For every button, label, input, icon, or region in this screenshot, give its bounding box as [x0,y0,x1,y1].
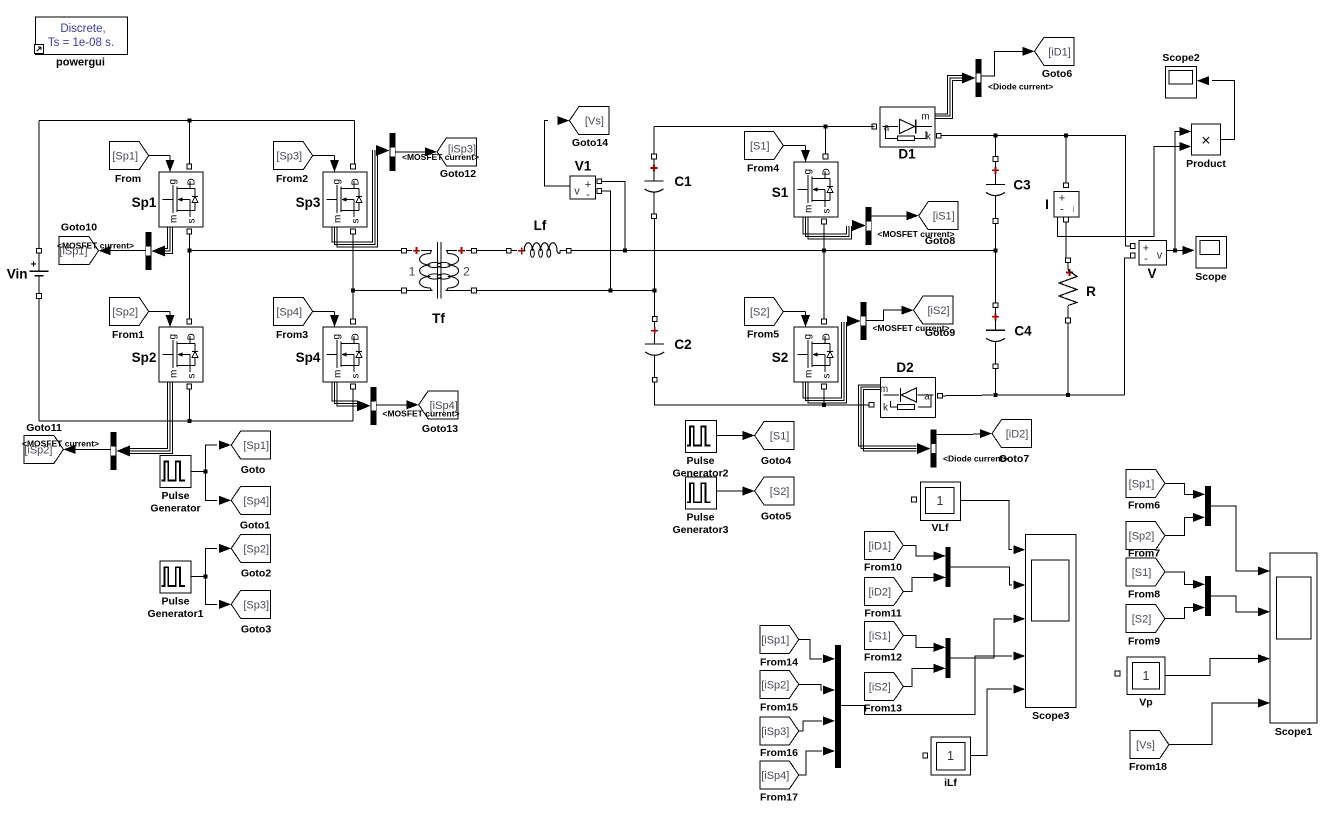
goto tag Goto11 [iSp2] [24,422,64,463]
wire From12->mux2 [904,636,935,648]
wire From15->bigmux [799,684,822,690]
demux Goto7 [931,430,937,468]
arrow into Goto8 [907,211,919,220]
wire PG2 out [717,435,743,437]
arrow bigmux in4 [823,747,835,756]
wire top bus [654,125,872,127]
svg-text:Goto5: Goto5 [761,510,791,522]
wire From->Sp1 gate [149,155,170,157]
arrow Product in1 [1179,127,1191,136]
svg-text:s: s [187,219,198,224]
from tag From10 [iD1] [864,531,903,573]
wire top rail left [39,120,355,122]
from tag From6 [Sp1] [1126,469,1165,511]
svg-text:g: g [803,169,814,175]
from tag From12 [iS1] [864,622,903,664]
svg-text:Sp2: Sp2 [132,350,157,365]
svg-text:[Sp3]: [Sp3] [276,151,302,163]
fat arrow into demux13 [357,400,371,411]
svg-text:Scope3: Scope3 [1032,710,1070,722]
arrow into Goto2 [219,544,231,553]
wire I top lead [1065,136,1067,183]
svg-text:D1: D1 [898,147,916,162]
wire V1+ to rail [602,181,625,248]
svg-text:[Sp4]: [Sp4] [243,495,269,507]
svg-text:Pulse: Pulse [161,490,189,502]
diode D1 [872,107,941,161]
svg-text:From12: From12 [864,652,902,664]
capacitor C1 [652,154,657,159]
arrow muxB in2 [1193,603,1205,612]
svg-text:From8: From8 [1128,589,1160,601]
wire demux11->Goto11 [76,449,111,451]
svg-text:[iSp4]: [iSp4] [761,770,789,782]
capacitor C3 [993,157,998,162]
bundle S2 m [803,322,842,398]
wire demux9->Goto9 [866,310,902,320]
wire PG1 out [191,548,217,604]
svg-text:D: D [822,333,833,340]
scope Scope [1195,237,1227,283]
svg-text:From6: From6 [1128,500,1160,512]
svg-text:Goto4: Goto4 [761,455,791,467]
voltage measurement V [1130,240,1166,281]
svg-text:D: D [351,333,362,340]
node top-rail/Sp1 junction [187,119,191,123]
wire rail2 secondary [476,290,654,292]
wire V out [1166,249,1182,251]
arrow into Goto4 [743,431,755,440]
node S-leg junction [822,249,826,253]
svg-text:D: D [822,168,833,175]
svg-text:V: V [1147,266,1156,281]
wire bigmux->Scope3 [841,656,1012,714]
wire Sp3s-Sp4d leg [352,234,354,319]
bundle Sp4 m [332,382,357,401]
fat arrow into demux12 [376,145,390,156]
wire From3->Sp4 gate [313,310,335,312]
from tag From18 [Vs] [1129,731,1169,773]
arrow into Scope [1183,246,1195,255]
wire From18->Scope1 [1170,703,1259,745]
bundle D1 m [935,76,962,114]
constant block Vp [1115,657,1165,709]
wire bottom rail left [39,420,353,422]
wire From8->muxB [1166,572,1194,585]
demux Goto12 [390,133,396,171]
svg-text:s: s [351,374,362,379]
svg-text:[Sp1]: [Sp1] [112,151,138,163]
arrow muxA in2 [1193,513,1205,522]
svg-text:[S2]: [S2] [770,486,790,498]
goto tag Goto3 [Sp3] [231,590,271,635]
node rail2 junction [351,289,355,293]
svg-text:From10: From10 [864,562,902,574]
constant block VLf [912,482,961,534]
svg-text:I: I [1045,197,1049,212]
svg-text:+: + [31,260,37,271]
svg-text:<MOSFET current>: <MOSFET current> [878,229,955,239]
svg-text:Generator1: Generator1 [147,608,203,620]
svg-text:m: m [169,370,180,378]
wire C3 top lead [995,136,997,157]
wire VLf->Scope3 [960,500,1012,549]
svg-text:m: m [921,112,929,123]
svg-text:D: D [187,178,198,185]
wire V1 output to Goto14 [544,121,570,187]
svg-text:i: i [1073,204,1075,214]
node PG1 branch [204,574,208,578]
goto tag Goto2 [Sp2] [231,534,271,579]
arrow into Goto13 [407,400,419,409]
arrow mux1 in2 [934,573,946,582]
fat arrow into demux11 [117,445,131,456]
from tag From15 [iSp2] [760,670,799,713]
arrow into Goto7 [980,429,992,438]
from tag From11 [iD2] [864,578,903,620]
svg-text:Lf: Lf [534,218,547,233]
svg-text:[Sp3]: [Sp3] [243,599,269,611]
svg-text:From11: From11 [864,608,902,620]
demux Goto10 [145,232,151,270]
wire C1-C2 link [654,219,656,317]
mosfet Sp3 [296,164,367,234]
fat arrow into demux6 [962,73,976,84]
bundle S1 m [803,217,847,234]
svg-text:2: 2 [463,265,470,279]
svg-text:v: v [1157,250,1163,262]
svg-text:S2: S2 [772,350,789,365]
wire Sp4 source lead [352,389,354,421]
from tag From3 [Sp4] [274,297,313,341]
mux Sp (muxA) [1205,486,1211,526]
pulse generator PulseGenerator2 [672,420,728,479]
wire iLf->Scope3 [970,689,1012,755]
from tag From8 [S1] [1126,558,1165,601]
wire V->Product [1175,131,1180,250]
svg-text:Sp4: Sp4 [296,350,321,365]
svg-text:[iSp3]: [iSp3] [761,726,789,738]
node V1- junction [609,289,613,293]
svg-text:D: D [351,178,362,185]
mosfet Sp4 [296,319,367,389]
svg-text:s: s [822,374,833,379]
pulse generator PulseGenerator [150,455,200,514]
goto tag Goto8 [iS1] [919,202,959,247]
mux iD (mux1) [946,547,951,587]
svg-text:From15: From15 [760,702,798,714]
svg-text:[iD2]: [iD2] [1006,429,1029,441]
wire From17->bigmux [799,751,822,775]
svg-text:Goto10: Goto10 [61,222,97,234]
svg-text:Pulse: Pulse [161,596,189,608]
constant block iLf [923,737,971,789]
svg-text:[Vs]: [Vs] [1136,740,1155,752]
svg-text:-: - [586,189,590,201]
svg-text:g: g [332,334,343,340]
wire From10->mux1 [904,545,935,556]
goto tag Goto4 [S1] [755,422,795,467]
wire C2 bottom lead [655,382,822,405]
svg-text:[iD2]: [iD2] [868,587,891,599]
wire Vin bottom lead [38,298,40,421]
svg-text:From17: From17 [760,792,798,804]
svg-text:s: s [351,219,362,224]
svg-text:Goto12: Goto12 [440,168,476,180]
svg-text:a: a [924,392,930,403]
wire demux7->Goto7 [937,433,982,435]
svg-text:V1: V1 [575,159,592,174]
svg-text:From5: From5 [747,329,779,341]
wire muxA->Scope1 [1211,506,1258,571]
svg-text:iLf: iLf [944,777,957,789]
wire From11->mux1 [904,577,935,591]
svg-text:1: 1 [1143,669,1150,683]
svg-text:[Sp2]: [Sp2] [1129,531,1155,543]
wire I signal [1058,147,1180,237]
node rail2 end junction [653,289,657,293]
svg-text:Scope1: Scope1 [1275,726,1313,738]
svg-text:m: m [804,205,815,213]
svg-text:<MOSFET current>: <MOSFET current> [22,439,99,449]
node PG branch [204,469,208,473]
scope Scope2 [1162,52,1200,98]
svg-text:Scope2: Scope2 [1162,52,1200,64]
wire S1-S2 leg [823,251,825,319]
svg-text:C2: C2 [674,337,691,352]
svg-text:1: 1 [937,494,944,508]
arrow into Goto14 [557,116,569,125]
wire S2 source lead [823,389,825,405]
svg-text:<MOSFET current>: <MOSFET current> [57,240,134,250]
svg-text:R: R [1086,284,1096,299]
arrow into Goto3 [219,600,231,609]
inductor Lf [506,218,571,257]
fat arrow into demux7 [917,443,931,454]
goto tag Goto13 [iSp4] [419,391,459,435]
svg-text:[Sp4]: [Sp4] [276,306,302,318]
svg-text:[iS1]: [iS1] [933,211,955,223]
goto tag Goto [Sp1] [231,431,271,476]
mux iS (mux2) [946,638,951,678]
wire From16->bigmux [799,721,822,731]
wire Sp3 drain lead [354,121,356,164]
node R bottom junction [1066,393,1070,397]
wire demux6->Goto6 [982,51,1025,76]
svg-text:-: - [1060,204,1064,216]
svg-text:m: m [333,215,344,223]
svg-text:Ts = 1e-08 s.: Ts = 1e-08 s. [48,37,114,49]
mosfet S2 [772,319,838,389]
svg-text:[Sp1]: [Sp1] [1129,478,1155,490]
arrow into Goto11 [63,445,75,454]
wire C1 top lead [653,126,655,154]
svg-text:[iS2]: [iS2] [927,305,949,317]
svg-text:From2: From2 [276,173,308,185]
arrow mux2 in2 [934,664,946,673]
mux iSp (big mux) [835,645,841,768]
wire From13->mux2 [904,668,935,686]
wire From4->S1 gate [783,145,805,147]
svg-text:[iS2]: [iS2] [869,682,891,694]
fat arrow into demux10 [152,246,166,257]
svg-text:s: s [187,374,198,379]
arrow mux2 in1 [934,643,946,652]
wire From9->muxB [1166,608,1194,619]
from tag From14 [iSp1] [760,626,799,669]
svg-text:1: 1 [409,265,416,279]
demux Goto9 [860,302,866,340]
wire bottom out rail [996,258,1131,395]
arrow bigmux in3 [823,716,835,725]
bundle Sp2 m [130,382,168,449]
wire S1 source lead [823,224,825,251]
arrow Product in2 [1179,142,1191,151]
mosfet S1 [772,154,838,224]
demux Goto6 [976,59,982,97]
svg-text:a: a [884,123,890,134]
arrow into Goto [219,441,231,450]
svg-text:[Vs]: [Vs] [585,116,604,128]
goto tag Goto12 [iSp3] [437,138,477,180]
svg-text:g: g [332,179,343,185]
transformer Tf [402,242,477,326]
wire mux2->Scope3 [951,619,1012,658]
svg-text:[S1]: [S1] [1132,567,1152,579]
arrow into Goto1 [219,496,231,505]
svg-text:<Diode current>: <Diode current> [988,82,1053,92]
svg-text:m: m [880,384,888,395]
goto tag Goto1 [Sp4] [231,486,271,531]
wire Sp2 source lead [188,389,190,421]
svg-text:g: g [803,334,814,340]
arrow into Goto6 [1023,47,1035,56]
wire rail3 to D2 [824,404,869,406]
from tag From13 [iS2] [864,673,903,715]
DC source Vin [7,248,49,298]
svg-text:Goto3: Goto3 [241,624,271,636]
svg-text:Vin: Vin [7,267,28,282]
scope Scope3 [1013,534,1076,722]
demux Goto8 [866,207,872,245]
pulse generator PulseGenerator1 [147,561,203,620]
svg-text:[iS1]: [iS1] [869,631,891,643]
svg-text:Goto13: Goto13 [422,423,458,435]
voltage measurement V1 [570,159,602,202]
svg-text:Goto2: Goto2 [241,568,271,580]
svg-text:From13: From13 [864,703,902,715]
svg-text:[iD1]: [iD1] [868,540,891,552]
svg-text:C1: C1 [674,174,692,189]
wire C4 top lead [995,251,997,303]
svg-text:D2: D2 [896,360,913,375]
wire demux13->Goto13 [377,404,407,406]
wire bus->D1 [872,125,874,127]
svg-text:g: g [168,179,179,185]
wire Product->Scope2 [1212,81,1234,140]
svg-text:powergui: powergui [56,57,105,69]
pulse generator PulseGenerator3 [672,477,728,536]
resistor R [1059,263,1096,323]
svg-text:Discrete,: Discrete, [60,23,105,35]
svg-text:Pulse: Pulse [686,512,714,524]
wire out bus [941,136,1130,246]
svg-text:Goto14: Goto14 [572,137,608,149]
powergui block [35,17,128,68]
node V out junction [1173,248,1177,252]
arrow mux1 in1 [934,551,946,560]
goto tag Goto5 [S2] [755,477,795,522]
node S1 junction [824,124,828,128]
svg-text:m: m [333,370,344,378]
svg-text:g: g [168,334,179,340]
svg-text:Goto1: Goto1 [240,520,270,532]
svg-text:[Sp2]: [Sp2] [112,306,138,318]
from tag From2 [Sp3] [274,142,313,185]
svg-text:<MOSFET current>: <MOSFET current> [402,152,479,162]
current measurement I [1045,183,1079,222]
wire V1- to rail2 [602,191,611,289]
wire PG3 out [717,490,743,492]
wire From7->muxA [1166,517,1194,535]
from tag From4 [S1] [744,132,783,175]
product block Product [1186,124,1226,170]
fat arrow into demux8 [852,220,866,231]
wire From1->Sp2 gate [149,310,170,312]
wire mid rail to primary [189,250,401,252]
wire From2->Sp3 gate [313,155,335,157]
svg-text:Generator: Generator [150,503,200,515]
node rail3 junction [822,403,826,407]
mosfet Sp1 [132,164,203,234]
capacitor C4 [993,303,998,308]
wire D2 anode out [943,394,994,397]
arrow bigmux in1 [823,654,835,663]
arrow muxB in1 [1193,580,1205,589]
svg-text:m: m [169,215,180,223]
goto tag Goto6 [iD1] [1035,37,1075,80]
wire R bottom lead [1067,323,1069,395]
svg-text:×: × [1201,133,1210,150]
svg-text:v: v [574,186,580,198]
wire From6->muxA [1166,483,1194,494]
from tag From5 [S2] [744,298,783,341]
svg-text:-: - [1144,253,1148,265]
svg-text:Vp: Vp [1139,697,1152,709]
diode D2 [869,360,942,417]
svg-text:C4: C4 [1014,323,1032,338]
svg-text:Goto6: Goto6 [1042,68,1072,80]
node C-col junction [994,249,998,253]
node bottom-rail/Sp2 junction [187,419,191,423]
svg-text:<MOSFET current>: <MOSFET current> [873,323,950,333]
from tag From1 [Sp2] [110,297,149,341]
mosfet Sp2 [132,319,203,389]
svg-text:VLf: VLf [932,522,949,534]
svg-text:1: 1 [947,749,954,763]
svg-text:Sp3: Sp3 [296,195,321,210]
svg-text:From16: From16 [760,747,798,759]
svg-text:[iD1]: [iD1] [1048,46,1071,58]
node V1+ junction [623,249,627,253]
svg-text:<Diode current>: <Diode current> [943,454,1008,464]
demux Goto13 [371,387,377,425]
svg-text:From4: From4 [747,163,779,175]
mux S (muxB) [1205,576,1211,616]
svg-text:s: s [822,209,833,214]
from tag From7 [Sp2] [1126,522,1165,560]
wire mux1->Scope3 [951,567,1012,585]
